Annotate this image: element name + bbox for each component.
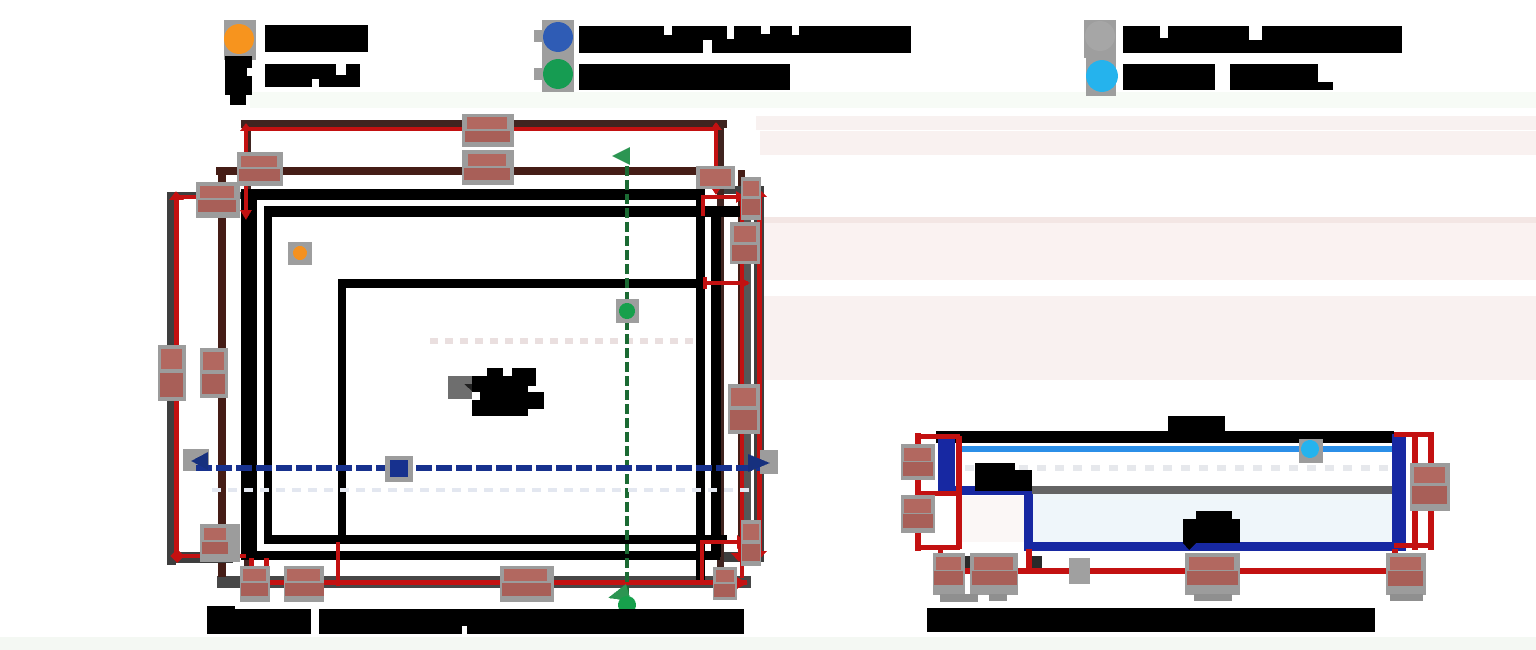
LEGEND [224, 20, 1402, 105]
shallow depth text [975, 463, 1032, 491]
red dim bottom width line [218, 540, 748, 590]
label righttop c [730, 222, 760, 264]
label bottom2 [284, 566, 324, 602]
label right bottom b [970, 553, 1018, 595]
rect B (maroon) [216, 167, 751, 577]
label right bottom d [1386, 553, 1426, 595]
red dim vline left inner with arrow [240, 123, 252, 220]
faint dashed line lower [212, 488, 756, 492]
legend marker smart level (blue) [534, 20, 574, 56]
legend marker external (gray) [1084, 20, 1116, 58]
red dim bottom-right bracket [700, 535, 747, 582]
legend label smart level text [579, 26, 911, 53]
red dim wall thickness right (mid) [703, 277, 750, 289]
label bottomcenter [500, 566, 554, 602]
green marker bottom [618, 596, 636, 614]
red bracket right [1394, 432, 1434, 550]
label rightmid [728, 384, 760, 434]
LEFT DIAGRAM [158, 114, 778, 635]
blue section line [183, 449, 778, 474]
pool water fill [1032, 494, 1392, 542]
orange marker in pool [288, 242, 312, 265]
RIGHT DIAGRAM [901, 416, 1450, 632]
label leftmid a [158, 345, 186, 401]
rect A/B bottom band (dark gray) [217, 576, 751, 588]
red overlay B right vline [740, 194, 744, 578]
gray marker bottom [1069, 558, 1090, 584]
mid gray line [1032, 486, 1392, 494]
green marker mid [616, 299, 639, 323]
label right bottom a [933, 553, 965, 595]
black ticks on bottom dim [959, 556, 971, 568]
pool rect D (black outer) [241, 189, 720, 580]
label righttop b [741, 177, 761, 220]
basin rect F (black) [338, 279, 696, 543]
cover label tab [1168, 416, 1225, 432]
legend label depth text [265, 64, 360, 87]
legend label green text [579, 64, 790, 90]
green section line [608, 147, 631, 601]
label leg stubs [940, 594, 1423, 602]
label topleft b [196, 182, 240, 218]
red dim vline right inner with arrows [710, 122, 722, 195]
label bottomleft cluster [200, 524, 240, 562]
label top1 [462, 114, 514, 147]
label right bottom c [1185, 553, 1240, 595]
right bracket C' (dark gray) [724, 186, 764, 562]
label leftmid b [200, 348, 228, 398]
pool rect E (black inner) [264, 206, 742, 557]
red dim top width line [246, 127, 718, 131]
label top2 [462, 150, 514, 185]
legend marker skimmer (orange) [224, 20, 256, 60]
label bottomright b [713, 567, 737, 600]
water level line (bright blue) [956, 446, 1392, 452]
label right-left a [901, 444, 935, 480]
deep depth text [1183, 511, 1240, 550]
label bottom1 [240, 566, 270, 602]
label right-left b [901, 495, 935, 533]
red bracket left [915, 433, 962, 551]
cover top line (black) [936, 431, 1394, 443]
caption left diagram [207, 606, 744, 635]
water level marker (cyan) [1299, 439, 1323, 463]
label right-right [1410, 463, 1450, 511]
red bottom dim line [938, 549, 1410, 578]
caption right diagram [927, 608, 1375, 632]
legend marker green [534, 56, 574, 92]
red overlay left bracket [169, 191, 246, 563]
red dim top-right corner bracket [701, 191, 746, 216]
legend label skimmer text [265, 25, 368, 52]
blue marker mid [385, 456, 413, 482]
legend marker depth (black) [225, 56, 254, 105]
faint dotted line upper [430, 338, 700, 344]
red overlay right bracket [752, 189, 767, 560]
legend label water level text [1123, 64, 1333, 90]
label bottomright a [741, 520, 761, 566]
legend marker water level (cyan) [1086, 58, 1118, 96]
label righttop a [696, 166, 735, 189]
red tick near top-left [212, 196, 224, 217]
label topleft a [237, 152, 283, 186]
center depth text [448, 368, 544, 416]
legend label external text [1123, 26, 1402, 53]
faint dashes under water line [965, 465, 1388, 471]
outer rect A (dark maroon) [241, 120, 727, 580]
pool outline (navy) [938, 434, 1406, 551]
left bracket C (dark gray) [167, 192, 245, 565]
